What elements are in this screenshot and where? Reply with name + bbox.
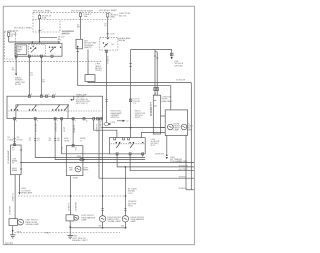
MFS top pin ticks (28, 95, 30, 97)
svg-text:PKG): PKG) (128, 206, 133, 208)
relay drop right w/ connector (171, 50, 173, 57)
MFS contact group 1 (11, 109, 12, 110)
svg-text:LMP: LMP (69, 170, 73, 172)
left fuse dashed box (4, 32, 15, 59)
inline connector on wire (34, 138, 36, 140)
box3 lamp circle (75, 166, 81, 172)
svg-text:18 VT/RD: 18 VT/RD (179, 169, 188, 171)
svg-text:16 VT: 16 VT (151, 145, 157, 147)
page-wide dashed connector line y=61.3 (4, 60, 102, 62)
junction block dashed extension (below fuse 1) (33, 20, 60, 33)
svg-text:18 PK/YL: 18 PK/YL (97, 123, 99, 132)
switch pin 2 (28, 55, 30, 57)
svg-text:ENGINE COMPT: ENGINE COMPT (72, 240, 88, 242)
connector tick C100 (107, 33, 109, 35)
svg-text:LAMP: LAMP (187, 128, 193, 131)
svg-text:C110: C110 (111, 122, 117, 124)
right front park lamp feed wire (102, 119, 104, 216)
inline connector box (85, 75, 95, 82)
svg-text:6: 6 (48, 94, 49, 96)
headlamp dimmer switch box (box2) (110, 138, 146, 154)
svg-text:OR: OR (12, 70, 16, 72)
svg-text:BK: BK (99, 225, 102, 227)
svg-text:ILLUM: ILLUM (15, 84, 21, 86)
junction dot (69, 226, 71, 228)
junction dot A (32, 41, 34, 43)
arrow to trailer tow (166, 157, 168, 159)
relay output pin (106, 50, 108, 52)
svg-text:18 BK/YL: 18 BK/YL (68, 202, 70, 211)
arrow into PDC (171, 57, 173, 59)
svg-text:18 RD/OR: 18 RD/OR (179, 165, 189, 167)
box3 bottom wire to center lamp (70, 176, 72, 215)
inline connector on feed (130, 63, 132, 65)
stub into switch box from dot C (58, 42, 60, 44)
horizontal run 1 (to right edge) (88, 82, 191, 83)
main feed wire y=40.1 (9, 41, 59, 43)
headlamp right edge pins (20, 149, 22, 151)
box2 bottom pins to fan (117, 154, 194, 167)
left headlamp bottom wire 1 (14, 175, 16, 219)
svg-text:BR: BR (77, 27, 80, 29)
left headlamp bottom wire 2 (stub w/ arrow) (19, 175, 21, 193)
svg-text:16 BK/OR: 16 BK/OR (155, 154, 165, 156)
fan line B2 from MFS pin3 (35, 119, 145, 158)
svg-text:LAMP: LAMP (130, 220, 136, 223)
ground G302 center (68, 235, 73, 237)
fan line B3 from MFS pin2 (55, 119, 145, 160)
wire center lamp to ground bus (69, 221, 71, 236)
wire MFS pin to dimmer left feed (94, 120, 117, 138)
stub from right lamp assembly right side down (185, 136, 187, 190)
fuse F17 (8, 33, 10, 37)
svg-text:HOT IN RUN OR START: HOT IN RUN OR START (71, 9, 94, 12)
junction dot on dashed (70, 195, 72, 197)
connector symbol mid (129, 99, 132, 102)
left front park/turn lamp (9, 219, 18, 226)
svg-text:SIGNAL LAMP: SIGNAL LAMP (107, 220, 121, 223)
svg-text:18 BK/WT: 18 BK/WT (9, 205, 11, 215)
ignition switch box (76, 39, 83, 49)
svg-text:C2: C2 (126, 121, 128, 123)
lamp circle high beam (181, 124, 187, 130)
svg-text:18 BK/YL: 18 BK/YL (74, 124, 76, 133)
svg-text:7: 7 (43, 94, 44, 96)
svg-text:18 BK/WT: 18 BK/WT (76, 201, 78, 211)
svg-text:RT HEADLAMP: RT HEADLAMP (150, 101, 153, 116)
wire from ignition box2 down (87, 50, 89, 75)
svg-text:18 VT/BK: 18 VT/BK (35, 123, 37, 132)
right front park/turn lamp (99, 216, 105, 222)
dashed ground bus line (15, 232, 121, 234)
switch pin 3 (40, 55, 42, 57)
switch pin 1 (stub) (15, 55, 17, 57)
wire from fuse F2 down to ignition switch (80, 18, 82, 39)
wire from relay down to connector (106, 50, 108, 122)
pin tick on fuse1 wire (39, 29, 41, 31)
headlamp feed pair down to right headlamp (154, 50, 156, 96)
svg-text:VT/BK: VT/BK (7, 139, 13, 141)
svg-text:HOT AT ALL TIMES: HOT AT ALL TIMES (99, 9, 117, 12)
floating arrow stub (to DRL module) (117, 120, 123, 122)
MFS contact group 4 (61, 109, 62, 110)
wire MFS pin9 down to park lamp box (72, 119, 74, 146)
svg-text:18 RD/OR: 18 RD/OR (55, 122, 57, 132)
wire left lamp to ground (12, 226, 14, 235)
junction dot B (39, 41, 41, 43)
svg-text:17: 17 (11, 36, 14, 38)
svg-text:SWITCH: SWITCH (111, 117, 119, 119)
svg-text:18 VT/BK: 18 VT/BK (179, 161, 188, 163)
wire switch pin2 to multi-function switch (28, 56, 30, 96)
junction dot C (58, 41, 60, 43)
wire C110 to right lamp assembly (102, 127, 166, 129)
svg-text:3/9/98): 3/9/98) (95, 70, 102, 72)
svg-text:9: 9 (75, 120, 76, 122)
svg-text:C1: C1 (133, 103, 136, 105)
svg-text:LT HEADLAMP: LT HEADLAMP (7, 150, 10, 164)
junction block dashed box (top) (33, 12, 111, 19)
junction dot ignition (77, 46, 79, 48)
svg-text:C301: C301 (128, 193, 134, 195)
right headlamp narrow box (153, 95, 160, 134)
connector ticks on right lamp feeds (102, 208, 104, 210)
svg-text:LAMP: LAMP (174, 128, 180, 131)
svg-text:11: 11 (86, 120, 88, 122)
left headlamp box (11, 145, 22, 175)
svg-text:2: 2 (57, 120, 58, 122)
arrow down (15, 74, 17, 76)
switch contacts right (49, 47, 50, 48)
MFS corner stub and dot (72, 96, 74, 100)
svg-text:LAMP: LAMP (81, 219, 87, 222)
fan line bottom (186, 189, 194, 191)
page frame border (3, 6, 194, 244)
svg-text:VT: VT (30, 75, 33, 77)
svg-text:18 PK/YL: 18 PK/YL (101, 120, 103, 129)
headlamp switch inner label box (17, 45, 27, 55)
svg-text:RD: RD (57, 140, 60, 142)
svg-text:RD: RD (49, 140, 52, 142)
inline connector on wire (54, 138, 56, 140)
MFS contact group 3 (52, 109, 53, 110)
svg-text:RD: RD (58, 39, 62, 41)
multi-function switch box (7, 96, 103, 118)
front park lamp relay box (box3) (66, 146, 83, 176)
ground bus wire (70, 227, 127, 229)
svg-text:2: 2 (42, 30, 44, 32)
headlamp switch box (15, 44, 62, 57)
box2 corner feed from right (141, 133, 165, 138)
junction dot (12, 230, 14, 232)
svg-text:SIGNAL LAMP: SIGNAL LAMP (26, 223, 40, 226)
fuse F1 (39, 14, 52, 20)
svg-text:14 RD/OR: 14 RD/OR (176, 80, 186, 82)
svg-text:YL: YL (80, 140, 83, 142)
wire from fuse F3 to tail lamp relay (107, 19, 109, 37)
wire MFS pin11 down to fan line 4 (99, 119, 194, 179)
stub wire to instrument illumination (15, 56, 17, 73)
pin wire to lamp box y=116 (161, 115, 166, 117)
svg-text:5: 5 (55, 94, 56, 96)
svg-text:SWITCH: SWITCH (62, 33, 70, 35)
svg-text:HI: HI (12, 163, 14, 165)
svg-text:16 BK/YL: 16 BK/YL (108, 55, 110, 64)
MFS contact group 2 (29, 109, 30, 110)
svg-text:VT/RD: VT/RD (17, 139, 24, 141)
splice dot S304 (166, 155, 168, 157)
right turn lamp feed from fan (124, 167, 126, 216)
connector boxes on pair above box (154, 88, 156, 91)
lamp ground stubs (102, 222, 104, 228)
box2 contacts (116, 142, 117, 143)
narrow box pin marks (154, 99, 156, 101)
svg-text:18 BK/YL: 18 BK/YL (13, 192, 15, 201)
svg-text:C100: C100 (110, 34, 116, 36)
svg-text:VT: VT (37, 140, 40, 142)
fan line B4 from MFS pin (62, 119, 110, 154)
connector tick on relay wire (105, 99, 107, 101)
fuse F2 (79, 13, 92, 18)
svg-text:84: 84 (112, 44, 115, 46)
svg-text:3: 3 (37, 120, 38, 122)
MFS internal dashed coupling (8, 110, 101, 112)
svg-text:RELAY: RELAY (119, 39, 127, 42)
connector ticks on pair (154, 55, 156, 57)
svg-text:10A: 10A (42, 17, 46, 20)
svg-text:(W/ DRL): (W/ DRL) (175, 65, 184, 67)
top right feed loop (131, 49, 172, 51)
svg-text:18 VT: 18 VT (64, 126, 66, 132)
fuse F3 (107, 13, 131, 19)
wire MFS pin4 down to left headlamp (14, 119, 16, 146)
box2 bottom pin squares (116, 153, 118, 155)
svg-text:SW: SW (17, 51, 20, 53)
svg-text:OUT FULLY): OUT FULLY) (76, 103, 88, 105)
relay internal dot (107, 38, 109, 40)
MFS internal wire (16, 105, 68, 119)
svg-text:LO: LO (12, 149, 15, 151)
svg-text:HEADLAMP: HEADLAMP (21, 192, 33, 195)
stub from right lamp assembly to splice S304 (166, 136, 168, 156)
box2 top pin squares (114, 138, 116, 140)
connector ticks (13, 138, 15, 140)
svg-text:HOT AT ALL TIMES: HOT AT ALL TIMES (14, 27, 32, 30)
lamp circle low beam (168, 124, 174, 130)
svg-text:HOT AT ALL TIMES: HOT AT ALL TIMES (33, 9, 51, 12)
wire from ignition dot down to horizontal run 2 (77, 47, 79, 86)
ground G301 left (10, 234, 15, 236)
svg-text:VT: VT (29, 140, 32, 142)
svg-text:BK: BK (121, 225, 124, 227)
MFS upper contact dots (17, 104, 18, 105)
relay contact (103, 42, 104, 43)
wire switch pin3 to multi-function switch (40, 56, 42, 96)
svg-text:30787: 30787 (5, 242, 14, 246)
svg-text:BEAM: BEAM (12, 169, 18, 172)
right rear turn lamp (122, 216, 128, 222)
right lamp assembly box (165, 110, 187, 136)
svg-text:JUNCTION: JUNCTION (7, 30, 18, 32)
svg-text:YL: YL (104, 26, 107, 28)
stub into switch box from dot A (31, 42, 33, 44)
switch pin 4 (unused tick) (51, 55, 53, 57)
svg-text:PARK: PARK (83, 168, 89, 171)
svg-text:18 PK/YL: 18 PK/YL (179, 177, 188, 179)
main DRL feed wire down (x=133.5) (130, 50, 132, 138)
svg-text:BLOCK: BLOCK (119, 16, 127, 18)
dashed connector line C301 (18, 195, 126, 197)
svg-text:15A: 15A (111, 16, 115, 19)
svg-text:HEADLAMP: HEADLAMP (161, 100, 173, 103)
switch contacts left (30, 48, 31, 49)
connector tick (77, 51, 79, 53)
svg-text:B: B (75, 149, 77, 151)
svg-text:4: 4 (16, 120, 17, 122)
tail lamp relay dashed box (100, 37, 118, 50)
box3 top pin tick (72, 145, 74, 147)
pin wire to lamp box y=127.5 (161, 127, 166, 129)
fan line B1: headlamp to right edge (21, 161, 194, 163)
headlamp switch dashed detail box (29, 44, 46, 55)
left center park/turn lamp (66, 215, 74, 221)
junction dot on dimmer feed (130, 127, 132, 129)
svg-text:(LEFT): (LEFT) (135, 117, 142, 119)
branch wire at y37.7 (40, 37, 57, 39)
svg-text:18 BK: 18 BK (73, 178, 79, 180)
MFS bottom pin ticks (14, 118, 16, 120)
svg-text:8: 8 (31, 94, 32, 96)
wire from fuse F1 down (39, 20, 41, 42)
svg-text:18 BK: 18 BK (64, 140, 70, 142)
svg-text:PK: PK (42, 82, 45, 84)
box2 dashed coupling (111, 143, 145, 145)
right edge vertical wire (190, 83, 192, 190)
horizontal run 2 (to right headlamp area) (78, 86, 171, 110)
splice connector on bundle (80, 158, 84, 160)
svg-text:LAMPS): LAMPS) (84, 46, 92, 49)
svg-text:10A: 10A (84, 15, 88, 18)
